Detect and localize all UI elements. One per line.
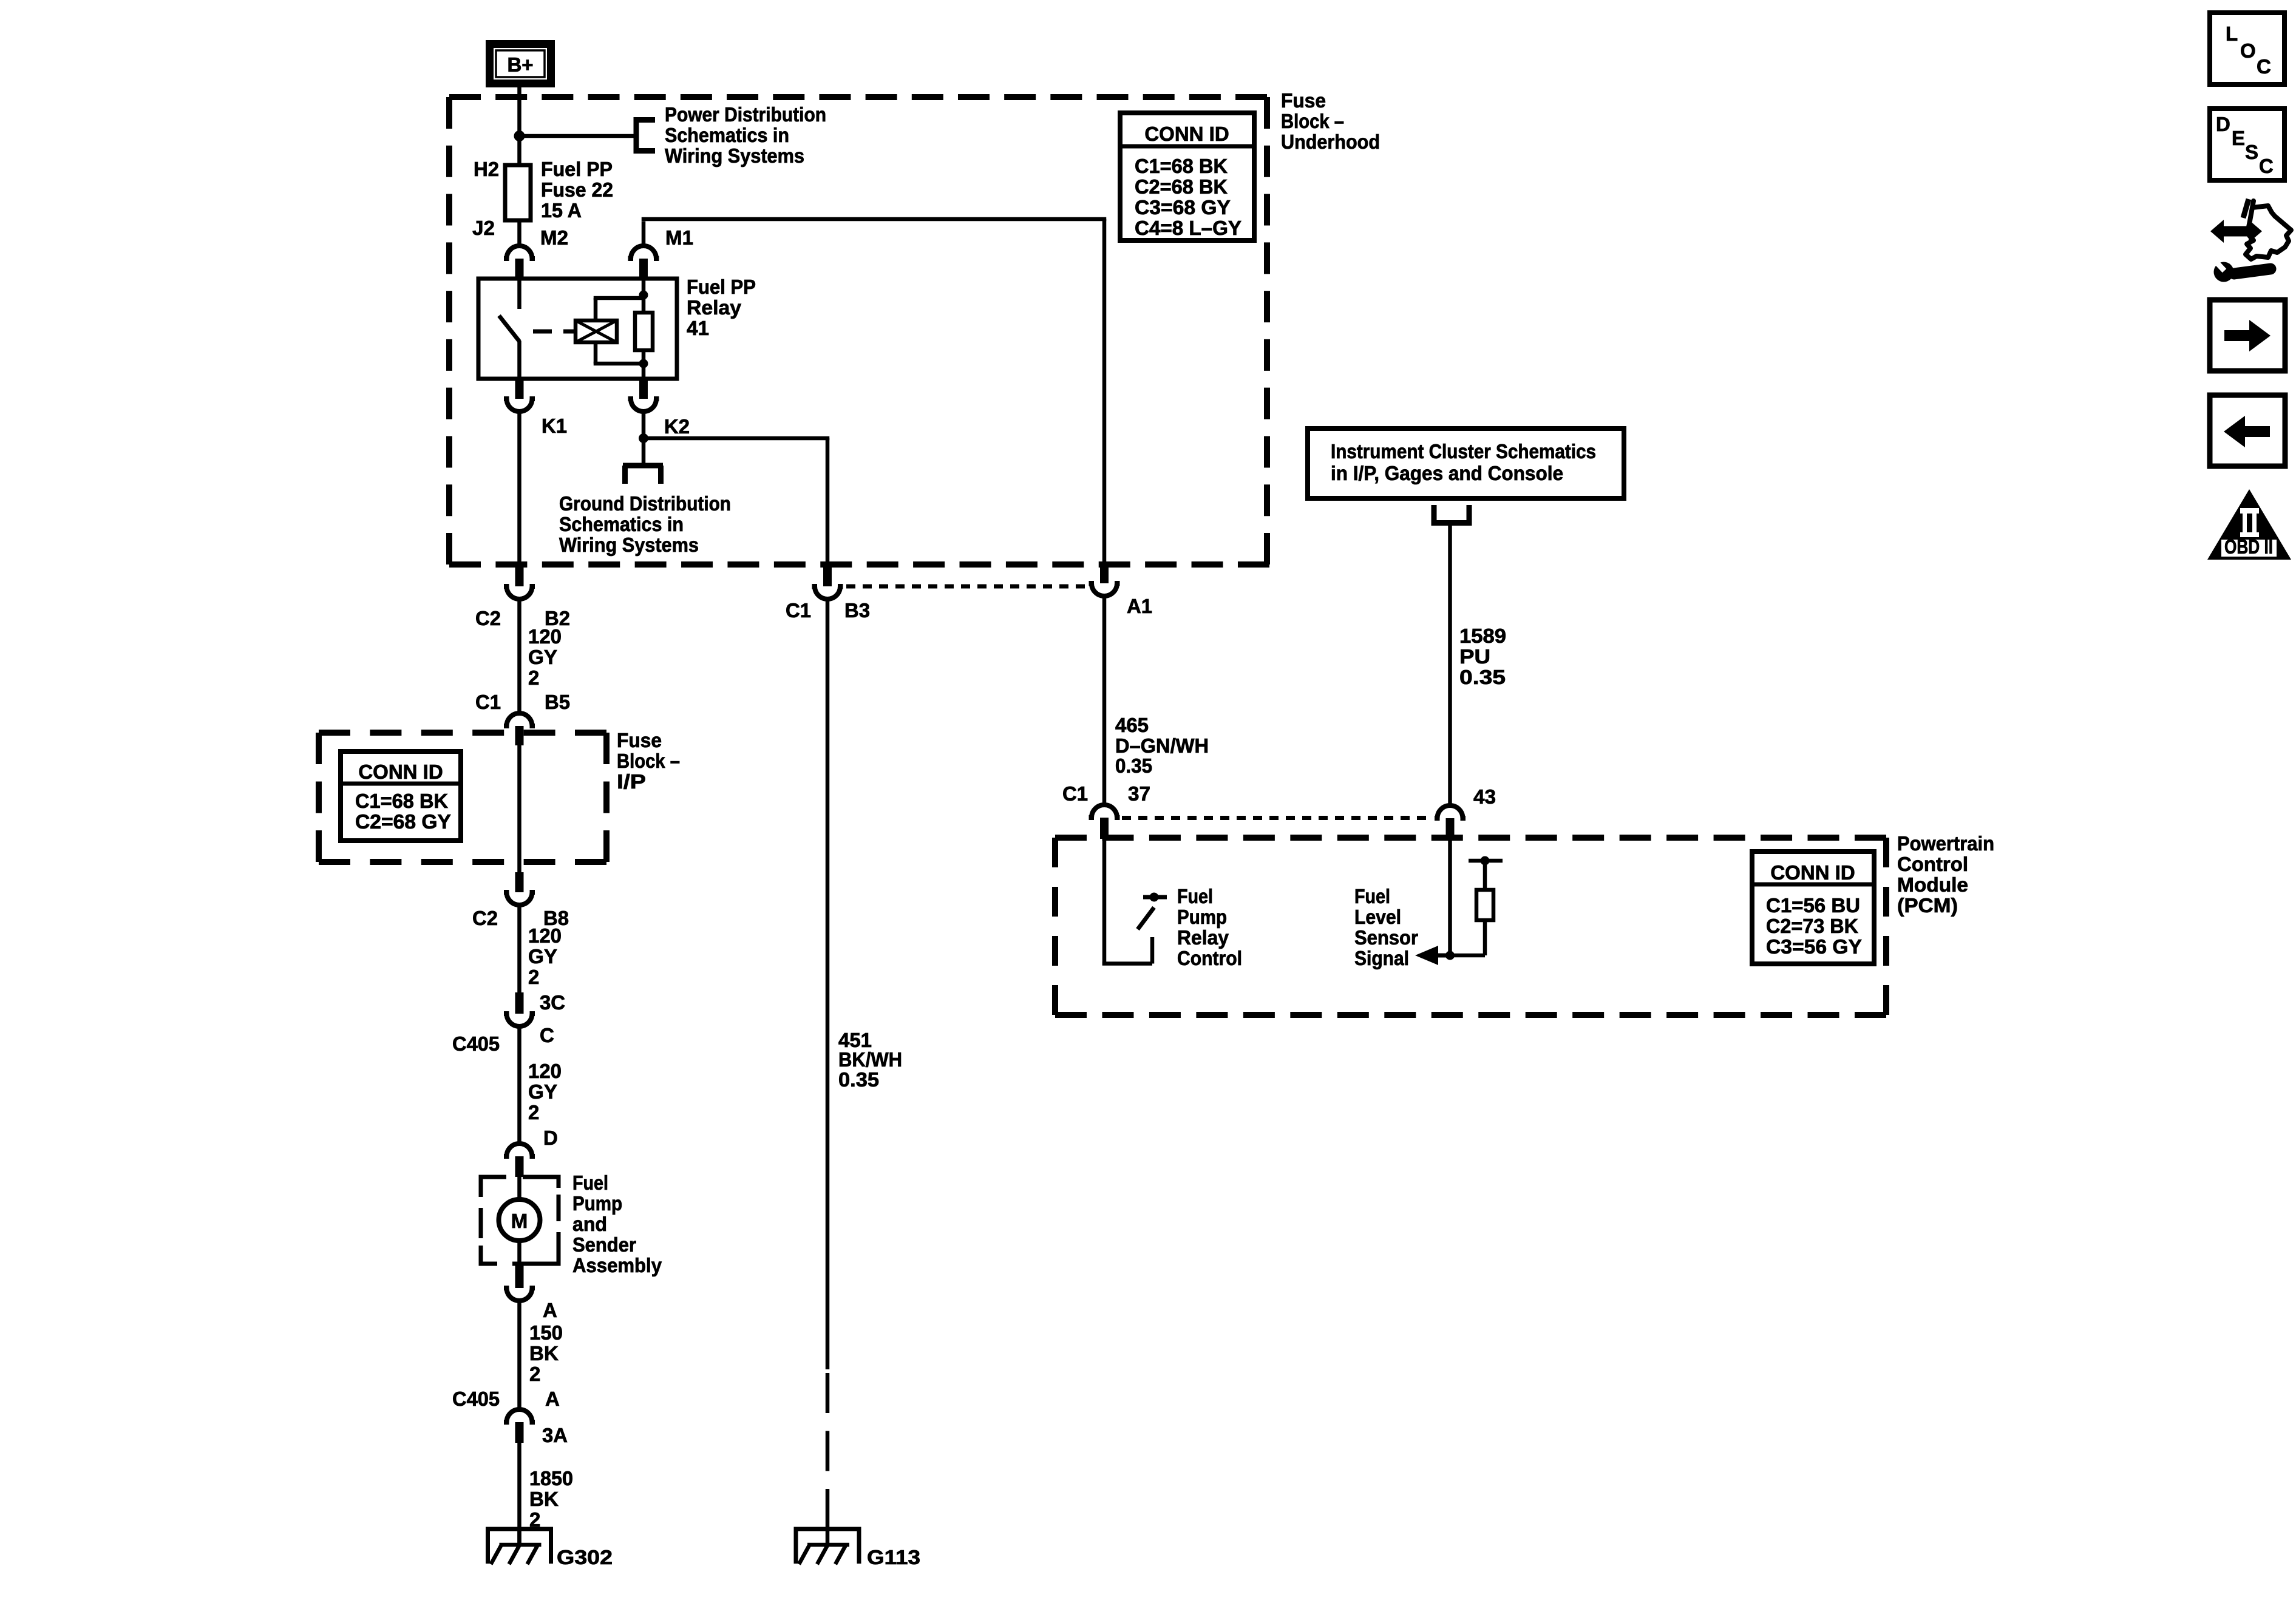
reference box Instrument Cluster Schematics — [1308, 429, 1624, 498]
relay switch lower contact — [517, 341, 521, 379]
svg-text:Pump: Pump — [572, 1192, 622, 1215]
svg-text:C1: C1 — [1062, 782, 1088, 805]
wire circuit 465 D-GN/WH — [1102, 596, 1107, 805]
label circuit 120 GY 2 upper — [528, 625, 562, 689]
relay coil branch wiring — [594, 298, 644, 364]
svg-text:Assembly: Assembly — [572, 1254, 662, 1276]
label Power Distribution Schematics in Wiring Systems — [665, 103, 826, 167]
relay resistor — [635, 279, 653, 379]
fuel pump assembly dashed border — [481, 1177, 559, 1264]
connector pin 43 — [1435, 805, 1466, 839]
fuse Fuel PP Fuse 22 15A — [505, 165, 531, 220]
junction dot B+ tap — [514, 131, 525, 141]
label 3C — [540, 991, 565, 1014]
svg-text:2: 2 — [528, 966, 539, 988]
label circuit 120 GY 2 lower — [528, 1060, 562, 1124]
svg-text:PU: PU — [1459, 645, 1490, 668]
label C2 — [475, 607, 501, 629]
junction dot relay bottom — [639, 359, 648, 368]
svg-text:D–GN/WH: D–GN/WH — [1115, 734, 1209, 757]
connector pin M2 — [504, 246, 535, 279]
label Fuse Block - I/P — [617, 729, 680, 793]
connector C2-B8 — [504, 872, 535, 905]
label A — [545, 1388, 560, 1410]
label Fuel Pump and Sender Assembly — [572, 1171, 662, 1276]
svg-text:Control: Control — [1177, 947, 1242, 969]
svg-text:G302: G302 — [557, 1546, 613, 1568]
label M1 — [665, 226, 693, 249]
pcm driver switch node — [1143, 893, 1167, 902]
icon outline pointer — [2243, 199, 2291, 259]
label C405 — [452, 1388, 500, 1410]
svg-text:Relay: Relay — [687, 296, 742, 319]
svg-text:0.35: 0.35 — [838, 1068, 879, 1091]
svg-text:M: M — [511, 1210, 528, 1232]
wire circuit 1589 PU — [1448, 526, 1452, 805]
table CONN ID PCM — [1752, 852, 1874, 964]
wire tap to power-distribution reference — [520, 134, 637, 138]
relay actuation dashed link — [533, 330, 576, 334]
icon double arrow — [2210, 220, 2262, 243]
svg-text:G113: G113 — [867, 1546, 920, 1568]
svg-text:Sender: Sender — [572, 1233, 636, 1256]
off-page bracket Ground Distribution — [623, 466, 663, 484]
wire circuit 120 GY upper — [517, 599, 521, 713]
svg-text:C1: C1 — [786, 599, 811, 622]
wire circuit 451 dashed tail — [826, 1373, 830, 1529]
svg-text:B+: B+ — [507, 53, 533, 76]
svg-text:C1=68 BK: C1=68 BK — [1135, 155, 1228, 177]
pcm internal rail — [1469, 856, 1503, 866]
label C — [540, 1024, 554, 1046]
svg-text:Ground Distribution: Ground Distribution — [559, 492, 731, 515]
svg-text:Block –: Block – — [617, 750, 680, 772]
label Fuel PP Relay 41 — [687, 276, 756, 339]
icon DESC box — [2210, 109, 2284, 180]
svg-text:2: 2 — [528, 666, 539, 689]
relay switch fixed contact — [517, 279, 521, 309]
svg-text:Underhood: Underhood — [1281, 131, 1380, 153]
svg-text:C2: C2 — [475, 607, 501, 629]
svg-text:Schematics in: Schematics in — [665, 124, 789, 146]
svg-text:C2: C2 — [472, 907, 498, 929]
connector C1-B3 — [812, 566, 843, 599]
relay switch blade — [499, 316, 520, 342]
wire circuit 120 GY middle — [517, 905, 521, 992]
label B3 — [844, 599, 870, 622]
wire inside fuse block I/P — [517, 745, 521, 872]
fuse block underhood dashed border — [449, 97, 1269, 564]
junction dot sensor signal — [1445, 951, 1455, 960]
svg-text:C405: C405 — [452, 1388, 500, 1410]
svg-text:15 A: 15 A — [541, 199, 582, 222]
wire K2 to ground reference — [642, 412, 646, 463]
svg-text:Instrument Cluster Schematics: Instrument Cluster Schematics — [1331, 440, 1596, 463]
label C1 — [1062, 782, 1088, 805]
svg-text:0.35: 0.35 — [1459, 666, 1506, 688]
svg-text:0.35: 0.35 — [1115, 754, 1152, 777]
dotted connector line C1-B3 to A1 — [846, 585, 1089, 589]
label G113 — [867, 1546, 920, 1568]
wire circuit 150 BK — [517, 1301, 521, 1409]
wire circuit 120 GY lower — [517, 1026, 521, 1144]
connector C1 pin 37 — [1089, 805, 1120, 839]
icon OBD II triangle — [2207, 489, 2291, 560]
svg-text:GY: GY — [528, 945, 557, 968]
connector pump assembly exit A — [504, 1265, 535, 1301]
svg-text:C2=73 BK: C2=73 BK — [1766, 915, 1858, 937]
icon LOC box — [2210, 13, 2284, 84]
label D — [543, 1127, 558, 1149]
connector pin D — [504, 1144, 535, 1177]
label C405 — [452, 1032, 500, 1055]
svg-text:Wiring Systems: Wiring Systems — [559, 534, 699, 556]
svg-text:465: 465 — [1115, 714, 1149, 736]
wire circuit 451 BK/WH solid — [826, 599, 830, 1369]
label G302 — [557, 1546, 613, 1568]
svg-text:Wiring Systems: Wiring Systems — [665, 144, 804, 167]
label B8 — [543, 907, 569, 929]
svg-text:CONN ID: CONN ID — [1144, 123, 1229, 145]
pcm driver switch blade — [1138, 907, 1154, 929]
label Powertrain Control Module PCM — [1897, 832, 1994, 917]
svg-text:(PCM): (PCM) — [1897, 894, 1958, 917]
svg-text:CONN ID: CONN ID — [358, 761, 443, 783]
label circuit 465 D-GN/WH 0.35 — [1115, 714, 1209, 777]
svg-text:S: S — [2245, 141, 2258, 163]
svg-text:C2=68 GY: C2=68 GY — [355, 810, 451, 833]
svg-text:OBD II: OBD II — [2224, 535, 2273, 558]
svg-text:BK/WH: BK/WH — [838, 1048, 902, 1071]
svg-text:K2: K2 — [664, 415, 690, 438]
svg-text:Power Distribution: Power Distribution — [665, 103, 826, 126]
label Ground Distribution Schematics in Wiring Systems — [559, 492, 731, 556]
wire K1 down to fuse block exit — [517, 412, 521, 566]
wire pcm pin43 internal — [1448, 839, 1452, 955]
svg-text:120: 120 — [528, 924, 562, 947]
svg-text:M1: M1 — [665, 226, 693, 249]
label M2 — [540, 226, 568, 249]
svg-text:Fuel PP: Fuel PP — [541, 158, 613, 180]
svg-text:150: 150 — [529, 1321, 563, 1344]
ground symbol G113 — [794, 1529, 861, 1564]
svg-text:Fuel: Fuel — [1354, 885, 1390, 907]
svg-text:120: 120 — [528, 1060, 562, 1082]
pcm pull-up resistor — [1476, 890, 1493, 920]
svg-text:C: C — [2257, 55, 2271, 78]
junction dot relay top — [639, 291, 648, 300]
svg-text:M2: M2 — [540, 226, 568, 249]
svg-text:A: A — [545, 1388, 560, 1410]
connector C405 pin A — [504, 1409, 535, 1443]
connector pin M1 — [628, 246, 659, 279]
svg-text:2: 2 — [529, 1363, 540, 1385]
connector pin K2 — [628, 379, 659, 412]
wire fuse to connector M2 — [517, 220, 521, 246]
relay coil crossed box — [576, 320, 617, 342]
label 37 — [1128, 782, 1150, 805]
svg-text:Schematics in: Schematics in — [559, 513, 684, 535]
label circuit 1589 PU 0.35 — [1459, 625, 1506, 688]
wire K2 branch to 451 drop — [644, 438, 829, 566]
wire pcm pin37 internal — [1102, 839, 1152, 966]
label A — [543, 1299, 557, 1321]
svg-text:Powertrain: Powertrain — [1897, 832, 1994, 855]
svg-text:37: 37 — [1128, 782, 1150, 805]
svg-text:J2: J2 — [472, 217, 495, 239]
label B2 — [545, 607, 570, 629]
svg-text:3A: 3A — [542, 1424, 568, 1446]
svg-text:Fuse: Fuse — [1281, 89, 1326, 112]
svg-text:BK: BK — [529, 1342, 559, 1364]
svg-text:C3=68 GY: C3=68 GY — [1135, 196, 1231, 219]
power symbol B+ terminal — [486, 40, 555, 87]
label circuit 120 GY 2 middle — [528, 924, 562, 988]
label C1 — [475, 691, 501, 713]
svg-text:BK: BK — [529, 1488, 559, 1510]
svg-text:C3=56 GY: C3=56 GY — [1766, 935, 1862, 958]
wire circuit 1850 BK — [517, 1443, 521, 1545]
label K1 — [542, 415, 567, 437]
label C2 — [472, 907, 498, 929]
svg-text:C1=68 BK: C1=68 BK — [355, 790, 448, 812]
svg-text:Sensor: Sensor — [1354, 926, 1418, 949]
svg-text:A: A — [543, 1299, 557, 1321]
icon wrench — [2214, 260, 2271, 282]
svg-text:Relay: Relay — [1177, 926, 1229, 949]
dotted connector line 37 to 43 — [1122, 816, 1433, 820]
label 3A — [542, 1424, 568, 1446]
svg-text:C2=68 BK: C2=68 BK — [1135, 175, 1228, 198]
sensor signal arrowhead — [1415, 946, 1450, 965]
svg-text:Fuel: Fuel — [572, 1171, 608, 1194]
svg-text:2: 2 — [528, 1101, 539, 1124]
svg-text:C1: C1 — [475, 691, 501, 713]
svg-text:D: D — [543, 1127, 558, 1149]
wire B+ to fuse H2 — [517, 87, 521, 165]
svg-text:1850: 1850 — [529, 1467, 573, 1490]
wire resistor to rail — [1483, 861, 1487, 890]
svg-text:C1=56 BU: C1=56 BU — [1766, 894, 1860, 917]
label 43 — [1473, 785, 1496, 808]
wire sensor pull-up — [1450, 920, 1486, 955]
label A1 — [1127, 595, 1152, 617]
label B5 — [545, 691, 570, 713]
connector C2-B2 — [504, 566, 535, 599]
svg-text:Fuse 22: Fuse 22 — [541, 178, 613, 201]
svg-text:E: E — [2232, 127, 2245, 149]
connector pin K1 — [504, 379, 535, 412]
svg-text:1589: 1589 — [1459, 625, 1506, 647]
svg-text:CONN ID: CONN ID — [1770, 861, 1855, 884]
table CONN ID fuse block I/P — [341, 751, 461, 841]
junction dot K2 branch — [639, 433, 648, 443]
svg-text:43: 43 — [1473, 785, 1496, 808]
svg-text:GY: GY — [528, 646, 557, 668]
relay box Fuel PP Relay 41 — [478, 279, 677, 379]
label Fuse Block - Underhood — [1281, 89, 1380, 153]
svg-text:and: and — [572, 1213, 607, 1235]
powertrain control module dashed border — [1055, 838, 1886, 1015]
svg-text:H2: H2 — [474, 158, 499, 180]
fuel pump motor M — [499, 1199, 540, 1241]
label K2 — [664, 415, 690, 438]
svg-text:Signal: Signal — [1354, 947, 1409, 969]
label circuit 150 BK 2 — [529, 1321, 563, 1385]
off-page bracket Power Distribution — [634, 117, 655, 154]
table CONN ID fuse block underhood — [1120, 113, 1254, 240]
svg-text:Fuel: Fuel — [1177, 885, 1213, 907]
ground symbol G302 — [486, 1529, 553, 1564]
svg-text:41: 41 — [687, 317, 709, 339]
icon back arrow box — [2210, 395, 2285, 466]
svg-text:D: D — [2216, 113, 2230, 135]
svg-text:3C: 3C — [540, 991, 565, 1014]
label Fuel PP Fuse 22 15 A — [541, 158, 613, 222]
label H2 — [474, 158, 499, 180]
svg-text:C: C — [2259, 155, 2274, 177]
wire motor to assembly exit — [517, 1241, 521, 1265]
svg-text:Fuse: Fuse — [617, 729, 662, 751]
icon forward arrow box — [2210, 300, 2285, 371]
fuse block I/P dashed border — [319, 733, 606, 862]
wire M1 riser to A1 — [642, 219, 1107, 566]
svg-text:Pump: Pump — [1177, 906, 1227, 928]
svg-text:Control: Control — [1897, 853, 1968, 875]
svg-text:Fuel PP: Fuel PP — [687, 276, 756, 298]
svg-text:GY: GY — [528, 1080, 557, 1103]
svg-text:O: O — [2240, 39, 2256, 62]
svg-text:K1: K1 — [542, 415, 567, 437]
svg-text:120: 120 — [528, 625, 562, 648]
label circuit 1850 BK 2 — [529, 1467, 573, 1531]
svg-text:A1: A1 — [1127, 595, 1152, 617]
label C1 — [786, 599, 811, 622]
off-page bracket instrument cluster — [1432, 505, 1472, 523]
svg-text:I/P: I/P — [617, 770, 646, 793]
wire into pump motor — [517, 1177, 521, 1199]
svg-text:C4=8 L–GY: C4=8 L–GY — [1135, 217, 1241, 239]
svg-text:L: L — [2226, 22, 2238, 45]
label J2 — [472, 217, 495, 239]
connector C1-B5 — [504, 713, 535, 745]
svg-text:in I/P, Gages and Console: in I/P, Gages and Console — [1331, 462, 1563, 484]
svg-text:B5: B5 — [545, 691, 570, 713]
svg-text:Module: Module — [1897, 873, 1968, 896]
svg-text:C405: C405 — [452, 1032, 500, 1055]
label Fuel Level Sensor Signal — [1354, 885, 1418, 969]
label Fuel Pump Relay Control — [1177, 885, 1242, 969]
svg-text:C: C — [540, 1024, 554, 1046]
svg-text:Level: Level — [1354, 906, 1401, 928]
svg-text:Block –: Block – — [1281, 110, 1344, 132]
svg-text:B3: B3 — [844, 599, 870, 622]
label circuit 451 BK/WH 0.35 — [838, 1029, 902, 1091]
connector C405 pin 3C — [504, 992, 535, 1026]
connector A1 — [1089, 564, 1120, 596]
